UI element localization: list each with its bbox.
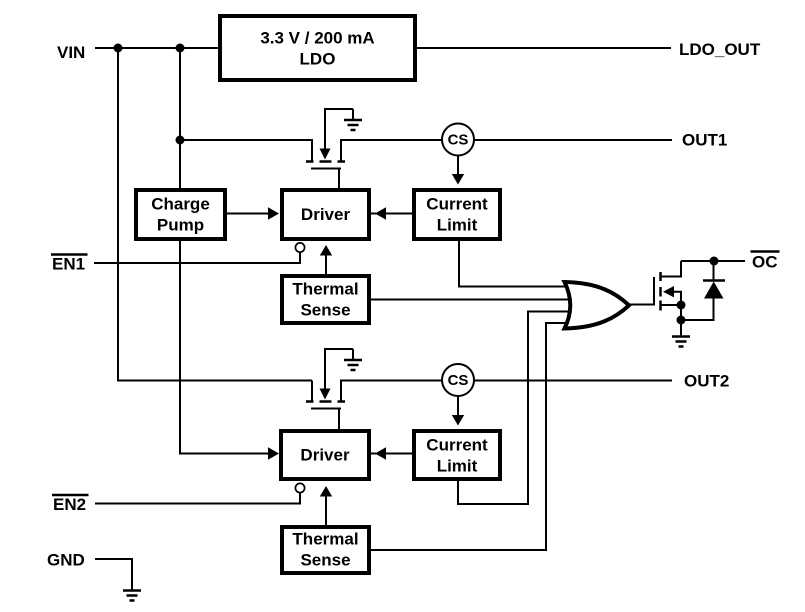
enable bubble on Driver 1 [295,243,304,252]
svg-text:EN1: EN1 [52,255,85,274]
block Current Limit 2 [414,431,500,479]
arrow Current Limit 2 to Driver 2 [371,447,412,460]
transistor M1 (OUT1 pass FET) [306,109,353,188]
junction dot on VIN line (node B) [176,44,185,53]
block Driver 1 [282,190,369,239]
ground at Q3 source [672,320,690,347]
svg-text:Pump: Pump [157,216,204,235]
block Driver 2 [281,431,369,479]
svg-text:Driver: Driver [300,446,350,465]
block Current Limit 1 [414,190,500,239]
block Charge Pump [136,190,225,239]
wire OR gate output to Q3 gate [629,304,654,306]
arrow CS2 to Current Limit 2 [452,396,464,426]
current sense CS2 [442,364,474,396]
junction dot Q3 source/body [677,301,686,310]
wire M2 drain down [311,381,313,402]
junction dot on VIN line (node A) [114,44,123,53]
arrow Thermal Sense 1 to Driver 1 [320,245,332,274]
svg-text:Charge: Charge [151,195,210,214]
wire EN2 [95,493,300,504]
wire OUT1 [341,140,672,161]
arrow Current Limit 1 to Driver 1 [371,207,412,220]
ground at GND pin [123,591,141,601]
junction dot at M1 drain branch [176,136,185,145]
wire Current Limit 2 to OR gate [458,312,576,505]
wire Charge Pump to Driver 2 (vertical run) [180,240,270,454]
label EN2 (with overbar) [52,495,89,514]
label EN1 (with overbar) [51,255,88,274]
block Thermal Sense 1 [282,276,369,323]
wire VIN input [95,47,218,49]
enable bubble on Driver 2 [295,483,304,492]
svg-text:VIN: VIN [57,43,85,62]
svg-text:CS: CS [448,132,469,149]
wire VIN vertical to Charge Pump [179,48,181,188]
diode D1 (clamp to OC) [703,261,725,299]
wire Q3 source to ground node [680,305,682,320]
block LDO (3.3 V / 200 mA LDO) [220,16,415,80]
wire Thermal Sense 2 to OR gate [371,323,574,550]
svg-text:Current: Current [426,436,488,455]
svg-text:Current: Current [426,195,488,214]
svg-text:GND: GND [47,551,85,570]
junction dot at OC / diode cathode [710,257,719,266]
arrow CS1 to Current Limit 1 [452,156,464,185]
svg-text:3.3 V / 200 mA: 3.3 V / 200 mA [260,29,374,48]
wire Thermal Sense 1 to OR gate [371,299,575,301]
wire Q3 drain to OC [681,260,745,262]
arrow Charge Pump to Driver 2 (arrowhead) [268,447,279,460]
wire diode anode run [681,299,714,321]
wire M1 drain branch [180,140,312,161]
wire OUT2 [341,381,672,402]
svg-text:CS: CS [448,372,469,389]
junction dot Q3 source to diode anode [677,316,686,325]
transistor M2 (OUT2 pass FET) [306,349,353,429]
wire VIN vertical to OUT2 switch drain [118,48,312,381]
svg-text:OC: OC [752,253,778,272]
or-gate U1 [565,282,630,329]
svg-text:Sense: Sense [300,301,350,320]
block Thermal Sense 2 [282,527,369,573]
svg-text:OUT1: OUT1 [682,131,727,150]
svg-text:EN2: EN2 [53,495,86,514]
svg-text:Limit: Limit [437,216,478,235]
label OC (with overbar) [751,252,780,272]
svg-text:Sense: Sense [300,551,350,570]
svg-text:Driver: Driver [301,205,351,224]
wire LDO output to LDO_OUT [417,47,671,49]
transistor Q3 (open-drain OC output FET) [654,261,681,311]
arrow Thermal Sense 2 to Driver 2 [320,486,332,525]
svg-text:OUT2: OUT2 [684,372,729,391]
wire GND pin to ground [95,559,132,590]
svg-text:LDO_OUT: LDO_OUT [679,40,761,59]
svg-text:Limit: Limit [437,457,478,476]
ground at M1 body [344,120,362,130]
svg-text:Thermal: Thermal [292,530,358,549]
current sense CS1 [442,124,474,156]
wire EN1 [94,253,300,264]
ground at M2 body [344,360,362,370]
arrow Charge Pump to Driver 1 [227,207,279,220]
svg-text:Thermal: Thermal [292,280,358,299]
svg-text:LDO: LDO [300,50,336,69]
wire Current Limit 1 to OR gate [459,240,573,287]
